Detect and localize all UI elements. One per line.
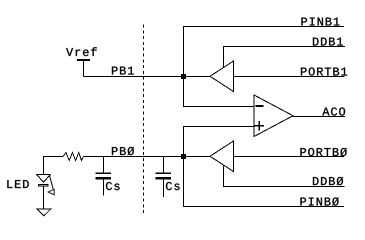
label DDB0 (313, 177, 343, 185)
net PINB1 (183, 26, 344, 28)
wire comparator inverting input (183, 106, 254, 108)
wire node to buffer U3 (184, 156, 211, 158)
comparator U2 analog comparator (254, 95, 293, 137)
label LED (7, 180, 28, 188)
wire PB0 left segment (44, 156, 63, 158)
resistor R1 (63, 153, 84, 161)
label PORTB0 (300, 148, 346, 156)
capacitor C1 top lead (103, 157, 105, 173)
label DDB1 (313, 38, 343, 46)
wire DDB1 drop to buffer (223, 47, 225, 69)
label PORTB1 (301, 67, 347, 75)
wire bus upper vertical (183, 26, 185, 107)
buffer U3 PORTB0 driver (210, 141, 234, 172)
capacitor C2 top lead (163, 157, 165, 173)
Vref supply bar (77, 59, 90, 61)
node PB0 junction (181, 154, 186, 159)
label ACO (322, 107, 345, 115)
wire comparator non-inverting input (183, 126, 254, 128)
label Cs C1 (106, 182, 120, 190)
capacitor C1 plates (96, 173, 112, 180)
LED D1 cathode bar (39, 185, 49, 187)
net ACO comparator output (293, 116, 346, 118)
plus sign non-inverting input (255, 121, 265, 130)
wire bus lower vertical (183, 127, 185, 207)
label PB1 (112, 67, 134, 75)
label PINB1 (301, 18, 339, 26)
LED cathode wire (43, 187, 45, 210)
wire node to buffer U1 (184, 76, 211, 78)
LED arrow tail (50, 176, 54, 190)
wire PB1 (84, 76, 184, 78)
label Vref (66, 47, 97, 56)
wire Vref down (83, 61, 85, 77)
wire PB0 right segment (84, 156, 184, 158)
net PORTB1 (234, 76, 345, 78)
net DDB0 (223, 186, 345, 188)
net DDB1 (223, 46, 345, 48)
LED D1 triangle (37, 175, 51, 183)
capacitor C1 bottom lead (103, 180, 105, 196)
ground symbol (37, 209, 51, 216)
net PINB0 (183, 206, 344, 208)
chip boundary dashed line (143, 25, 145, 215)
buffer U1 PORTB1 driver (210, 61, 234, 92)
LED anode wire (43, 156, 45, 175)
capacitor C2 bottom lead (163, 180, 165, 198)
label PB0 (112, 147, 134, 155)
label PINB0 (300, 197, 338, 205)
net PORTB0 (234, 156, 345, 158)
node PB1 junction (181, 74, 186, 79)
minus sign inverting input (255, 105, 263, 107)
wire DDB0 rise to buffer (223, 166, 225, 187)
LED arrow head (48, 189, 54, 195)
capacitor C2 plates (156, 173, 172, 180)
label Cs C2 (166, 182, 180, 190)
